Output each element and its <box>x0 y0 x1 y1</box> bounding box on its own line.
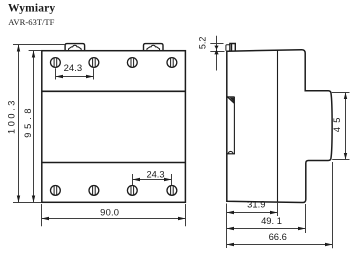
svg-text:45: 45 <box>332 113 342 132</box>
svg-text:31.9: 31.9 <box>247 199 265 210</box>
svg-text:24.3: 24.3 <box>146 170 164 180</box>
svg-text:49. 1: 49. 1 <box>261 215 282 226</box>
svg-text:5.2: 5.2 <box>197 37 207 50</box>
svg-text:66.6: 66.6 <box>269 231 287 242</box>
svg-text:AVR-63T/TF: AVR-63T/TF <box>8 17 54 27</box>
svg-text:95.8: 95.8 <box>23 105 33 138</box>
svg-text:90.0: 90.0 <box>100 206 119 217</box>
svg-text:24.3: 24.3 <box>64 63 83 74</box>
svg-text:Wymiary: Wymiary <box>8 2 55 14</box>
svg-text:100.3: 100.3 <box>6 98 16 134</box>
